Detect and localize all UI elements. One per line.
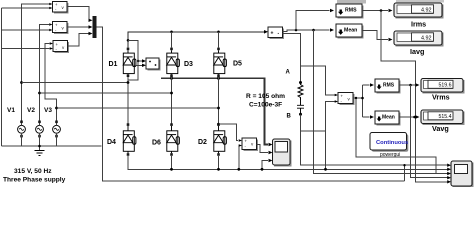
node phase2-D3 junction	[170, 92, 173, 95]
wire to RMS1	[363, 84, 370, 86]
node bus-riser	[261, 168, 264, 171]
svg-text:D2: D2	[198, 139, 207, 146]
wire to Mean1	[363, 116, 370, 118]
diode D5	[214, 48, 227, 77]
svg-text:Vavg: Vavg	[432, 124, 449, 133]
voltage measurement U1	[49, 2, 68, 14]
node Vrms branch	[409, 84, 412, 87]
wire D6 bottom to bus	[171, 156, 173, 169]
wire D1 m-output to scope	[134, 64, 142, 66]
wire top DC bus	[128, 32, 264, 48]
block RMS1	[370, 79, 401, 94]
node bus-D5	[217, 31, 220, 34]
wire bus riser to scope2 input3	[262, 161, 268, 170]
node bus-D2	[217, 168, 220, 171]
node B junction	[299, 113, 302, 116]
wire neutral bus to sources	[2, 145, 102, 147]
source V3	[53, 121, 61, 147]
wire neutral rail left	[1, 8, 3, 146]
svg-text:Continuous: Continuous	[376, 140, 408, 146]
node bus-B	[324, 168, 327, 171]
source V1	[18, 121, 26, 147]
svg-text:D6: D6	[152, 140, 161, 147]
svg-text:+: +	[271, 31, 274, 37]
node bus-D3	[170, 31, 173, 34]
wire phase2 rail	[40, 25, 50, 123]
partial block above RMS (cropped at top)	[337, 0, 366, 4]
svg-text:V2: V2	[27, 107, 35, 114]
node phase1 tap	[20, 81, 23, 84]
voltage measurement U2	[49, 22, 68, 35]
wire cathode link bus	[161, 78, 268, 144]
wire phase2 horizontal	[40, 92, 172, 94]
svg-text:B: B	[287, 114, 292, 120]
wire D3 bottom down	[171, 77, 173, 123]
source V2	[36, 121, 44, 147]
wire VM4 minus to bottom bus	[238, 146, 240, 170]
svg-text:315 V, 50 Hz: 315 V, 50 Hz	[14, 168, 52, 175]
wire VM4 plus from D2 top	[219, 124, 239, 141]
svg-text:D3: D3	[184, 61, 193, 68]
wire VM2 minus from neutral	[2, 29, 50, 31]
wire D5 bottom down	[218, 77, 220, 123]
capacitor C1	[297, 98, 304, 115]
svg-text:515.4: 515.4	[439, 114, 452, 120]
display Iavg	[389, 31, 444, 47]
node bus-D6	[170, 168, 173, 171]
svg-text:V3: V3	[44, 107, 52, 114]
block Mean	[330, 24, 364, 39]
node VM5 split	[361, 97, 364, 100]
display Vavg	[416, 110, 465, 125]
wire D1 measure loop riser	[128, 40, 138, 80]
voltage measurement VM4	[239, 138, 258, 151]
svg-text:A: A	[286, 70, 291, 76]
wire D2 bottom to bus	[218, 156, 220, 169]
node D2 top tap	[217, 123, 220, 126]
wire VM1 minus from neutral	[2, 7, 50, 9]
ground	[35, 146, 45, 156]
wire mux line riser join	[404, 165, 406, 181]
diode D3	[167, 48, 180, 77]
svg-text:Three Phase supply: Three Phase supply	[3, 177, 66, 184]
svg-text:D4: D4	[107, 139, 116, 146]
node phase1-D1 junction	[127, 81, 130, 84]
wire VM5 out split	[353, 85, 363, 117]
wire CM1 electrical out to load	[283, 34, 301, 83]
node signal split RMS	[295, 29, 298, 32]
wire U2 out to mux	[67, 26, 91, 28]
wire Vrms riser to scope	[411, 85, 448, 178]
node bus-VM4	[237, 168, 240, 171]
node Vavg branch	[413, 116, 416, 119]
node link-D5	[217, 77, 220, 80]
wire phase1 horizontal	[22, 82, 129, 84]
wire CM1 signal out	[283, 30, 330, 32]
wire phase3 horizontal	[57, 107, 219, 109]
diode D2	[214, 123, 227, 156]
svg-text:Irms: Irms	[411, 20, 426, 29]
node D1 top branch	[127, 39, 130, 42]
wire RMS out to display	[362, 10, 388, 12]
scope SC3	[447, 161, 473, 188]
svg-text:powergui: powergui	[380, 152, 400, 158]
svg-text:519.6: 519.6	[439, 83, 452, 89]
node A junction	[299, 81, 302, 84]
svg-text:RMS: RMS	[383, 83, 395, 89]
wire Mean1 out to display	[399, 116, 416, 118]
node lineA join	[403, 164, 405, 166]
voltage measurement VM5	[335, 93, 355, 106]
wire to RMS	[296, 11, 330, 31]
wire RMS1 out to display	[399, 84, 416, 86]
diode D1	[123, 48, 136, 77]
node riser to scope tap	[137, 60, 139, 62]
node phase3 tap	[55, 107, 58, 110]
display Vrms	[416, 79, 465, 94]
wire bus to D3 top	[171, 32, 173, 48]
wire D1 bottom to phase1 node	[127, 77, 129, 123]
svg-text:Mean: Mean	[344, 28, 357, 34]
node Irms branch	[380, 9, 383, 12]
svg-text:RMS: RMS	[345, 8, 357, 14]
wire load bottom	[301, 114, 448, 165]
svg-text:R = 105 ohm: R = 105 ohm	[246, 93, 285, 100]
svg-text:Iavg: Iavg	[410, 47, 424, 56]
node phase2 tap	[38, 92, 41, 95]
wire A to VM5 plus	[301, 66, 336, 95]
svg-text:Vrms: Vrms	[432, 93, 450, 102]
wire branch to scope SC1	[138, 60, 142, 62]
wire bus to D5 top	[218, 32, 220, 48]
resistor R1	[298, 83, 303, 100]
svg-text:4.92: 4.92	[421, 7, 432, 13]
diode D6	[167, 123, 180, 156]
wire D4 bottom to bus	[128, 156, 448, 170]
scope SC1	[142, 58, 161, 71]
wire VM4 out to scope2	[257, 145, 269, 153]
wire VM3 minus from neutral	[2, 48, 50, 50]
block Mean1	[370, 111, 401, 126]
partial block above display Irms (cropped at top)	[396, 0, 444, 3]
wire U1 out to mux	[67, 6, 91, 20]
svg-text:V1: V1	[7, 107, 15, 114]
wire VM5 signal down to scope	[356, 98, 436, 174]
node link-D3	[170, 77, 173, 80]
wire Irms signal to scope via jog	[381, 11, 448, 182]
current measurement CM1	[264, 27, 284, 39]
mux M1	[89, 16, 97, 38]
wire phase3 rail	[45, 44, 57, 123]
node phase3-D5 junction	[217, 107, 220, 110]
block RMS	[330, 4, 364, 19]
wire B to VM5 minus	[301, 102, 336, 132]
wire phase1 rail	[22, 4, 50, 122]
wire mux out down to bottom	[97, 27, 405, 181]
svg-text:C=100e-3F: C=100e-3F	[249, 102, 282, 109]
powergui	[370, 133, 408, 159]
svg-text:4.92: 4.92	[421, 35, 432, 41]
scope SC2	[269, 139, 292, 167]
display Irms	[389, 3, 444, 19]
voltage measurement U3	[50, 41, 69, 54]
svg-text:D5: D5	[233, 61, 242, 68]
node signal split scope	[312, 29, 315, 32]
wire B riser to bottom bus	[325, 131, 327, 169]
svg-text:Mean: Mean	[382, 115, 395, 121]
wire Mean out to display	[362, 31, 388, 40]
wire U3 out to mux	[68, 34, 92, 47]
wire current signal riser to scope	[314, 30, 448, 174]
node neutral-v2 junction	[38, 145, 41, 148]
diode D4	[123, 123, 136, 156]
svg-text:D1: D1	[109, 61, 118, 68]
